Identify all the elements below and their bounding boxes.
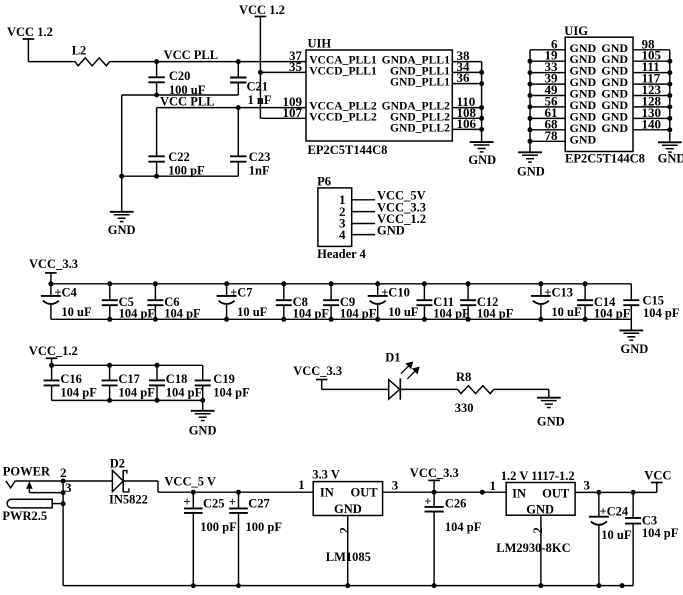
svg-text:VCC 1.2: VCC 1.2: [7, 25, 53, 39]
svg-text:GND: GND: [526, 502, 554, 516]
svg-text:+C24: +C24: [600, 504, 629, 518]
svg-text:+C7: +C7: [230, 285, 252, 299]
svg-text:GND: GND: [570, 132, 597, 146]
svg-text:OUT: OUT: [351, 485, 379, 499]
svg-text:36: 36: [457, 70, 471, 85]
svg-text:R8: R8: [456, 370, 471, 384]
svg-text:C23: C23: [249, 150, 271, 164]
svg-text:GND: GND: [189, 424, 217, 438]
svg-text:4: 4: [339, 227, 346, 242]
svg-text:D1: D1: [385, 351, 400, 365]
svg-text:104 pF: 104 pF: [60, 386, 97, 400]
svg-text:100 pF: 100 pF: [168, 164, 205, 178]
svg-text:C26: C26: [445, 497, 467, 511]
svg-text:104 pF: 104 pF: [119, 307, 156, 321]
svg-text:1.2 V 1117-1.2: 1.2 V 1117-1.2: [501, 469, 575, 483]
svg-text:GND: GND: [658, 152, 683, 166]
svg-text:IN: IN: [512, 487, 526, 501]
svg-text:VCC_5 V: VCC_5 V: [164, 475, 216, 489]
svg-text:C17: C17: [118, 372, 140, 386]
svg-text:IN5822: IN5822: [109, 492, 148, 506]
svg-text:2: 2: [60, 465, 67, 480]
svg-text:VCC_1.2: VCC_1.2: [29, 344, 78, 358]
svg-text:VCC_3.3: VCC_3.3: [410, 466, 459, 480]
svg-text:100 pF: 100 pF: [200, 520, 237, 534]
svg-text:D2: D2: [110, 456, 125, 470]
svg-text:2: 2: [530, 527, 545, 534]
svg-text:+: +: [184, 495, 191, 509]
svg-text:10 uF: 10 uF: [601, 528, 632, 542]
svg-text:PWR2.5: PWR2.5: [2, 509, 47, 523]
svg-text:10 uF: 10 uF: [551, 305, 582, 319]
svg-text:104 pF: 104 pF: [164, 307, 201, 321]
svg-text:104 pF: 104 pF: [594, 307, 631, 321]
svg-text:C27: C27: [248, 496, 270, 510]
svg-text:C18: C18: [166, 372, 188, 386]
svg-text:C22: C22: [168, 150, 190, 164]
svg-text:LM2930-8KC: LM2930-8KC: [496, 541, 570, 555]
svg-text:1: 1: [490, 478, 497, 493]
svg-text:10 uF: 10 uF: [237, 305, 268, 319]
svg-text:VCC_3.3: VCC_3.3: [29, 257, 78, 271]
svg-text:VCCD_PLL1: VCCD_PLL1: [309, 64, 377, 77]
svg-text:UIH: UIH: [308, 37, 332, 51]
svg-text:GND: GND: [468, 153, 496, 167]
svg-text:+C4: +C4: [54, 285, 77, 299]
svg-text:GND: GND: [334, 502, 362, 516]
svg-text:C16: C16: [60, 372, 82, 386]
svg-text:OUT: OUT: [542, 487, 570, 501]
svg-text:3: 3: [583, 478, 590, 493]
svg-text:10 uF: 10 uF: [388, 305, 419, 319]
svg-text:106: 106: [457, 116, 477, 131]
svg-text:107: 107: [283, 105, 303, 120]
svg-text:1nF: 1nF: [249, 164, 270, 178]
svg-text:GND_PLL2: GND_PLL2: [390, 121, 450, 134]
svg-text:140: 140: [642, 116, 662, 131]
svg-text:POWER: POWER: [3, 464, 51, 478]
svg-text:104 pF: 104 pF: [213, 386, 250, 400]
svg-text:+: +: [424, 494, 431, 508]
svg-text:GND: GND: [537, 414, 565, 428]
svg-text:VCC_3.3: VCC_3.3: [293, 364, 342, 378]
svg-text:104 pF: 104 pF: [643, 306, 680, 320]
svg-text:GND_PLL1: GND_PLL1: [390, 76, 450, 89]
svg-text:+: +: [229, 495, 236, 509]
svg-text:1 nF: 1 nF: [248, 93, 272, 107]
svg-text:330: 330: [455, 401, 474, 415]
svg-text:104 pF: 104 pF: [433, 307, 470, 321]
svg-text:104 pF: 104 pF: [118, 386, 155, 400]
svg-text:Header 4: Header 4: [317, 247, 366, 261]
svg-text:EP2C5T144C8: EP2C5T144C8: [308, 143, 388, 157]
svg-text:C21: C21: [247, 79, 269, 93]
svg-text:GND: GND: [517, 164, 545, 178]
svg-text:GND: GND: [108, 223, 136, 237]
svg-text:VCC PLL: VCC PLL: [160, 95, 215, 109]
svg-text:3.3 V: 3.3 V: [312, 468, 340, 482]
svg-text:P6: P6: [317, 175, 331, 189]
svg-text:10 uF: 10 uF: [61, 305, 92, 319]
svg-text:104 pF: 104 pF: [340, 307, 377, 321]
svg-text:100 pF: 100 pF: [246, 520, 283, 534]
svg-text:C19: C19: [213, 372, 235, 386]
svg-text:+C13: +C13: [544, 285, 573, 299]
svg-text:104 pF: 104 pF: [166, 386, 203, 400]
svg-text:UIG: UIG: [564, 24, 588, 38]
svg-text:VCCD_PLL2: VCCD_PLL2: [309, 110, 377, 123]
svg-text:104 pF: 104 pF: [293, 307, 330, 321]
svg-text:EP2C5T144C8: EP2C5T144C8: [565, 152, 645, 166]
svg-text:104 pF: 104 pF: [445, 520, 482, 534]
svg-text:1: 1: [298, 477, 305, 492]
svg-text:35: 35: [289, 59, 303, 74]
svg-text:78: 78: [545, 128, 559, 143]
svg-text:104 pF: 104 pF: [642, 526, 679, 540]
svg-text:VCC: VCC: [644, 469, 671, 483]
svg-text:C25: C25: [203, 496, 225, 510]
svg-text:VCC 1.2: VCC 1.2: [239, 3, 285, 17]
svg-text:IN: IN: [320, 485, 334, 499]
svg-text:GND: GND: [621, 342, 649, 356]
svg-text:2: 2: [336, 527, 351, 534]
svg-text:VCC PLL: VCC PLL: [164, 48, 219, 62]
svg-text:3: 3: [65, 480, 72, 495]
svg-text:104 pF: 104 pF: [477, 307, 514, 321]
svg-text:L2: L2: [72, 44, 87, 58]
svg-text:C20: C20: [169, 69, 191, 83]
svg-text:GND: GND: [601, 121, 628, 135]
svg-text:GND: GND: [377, 223, 405, 237]
svg-text:3: 3: [392, 478, 399, 493]
svg-text:+C10: +C10: [381, 285, 410, 299]
